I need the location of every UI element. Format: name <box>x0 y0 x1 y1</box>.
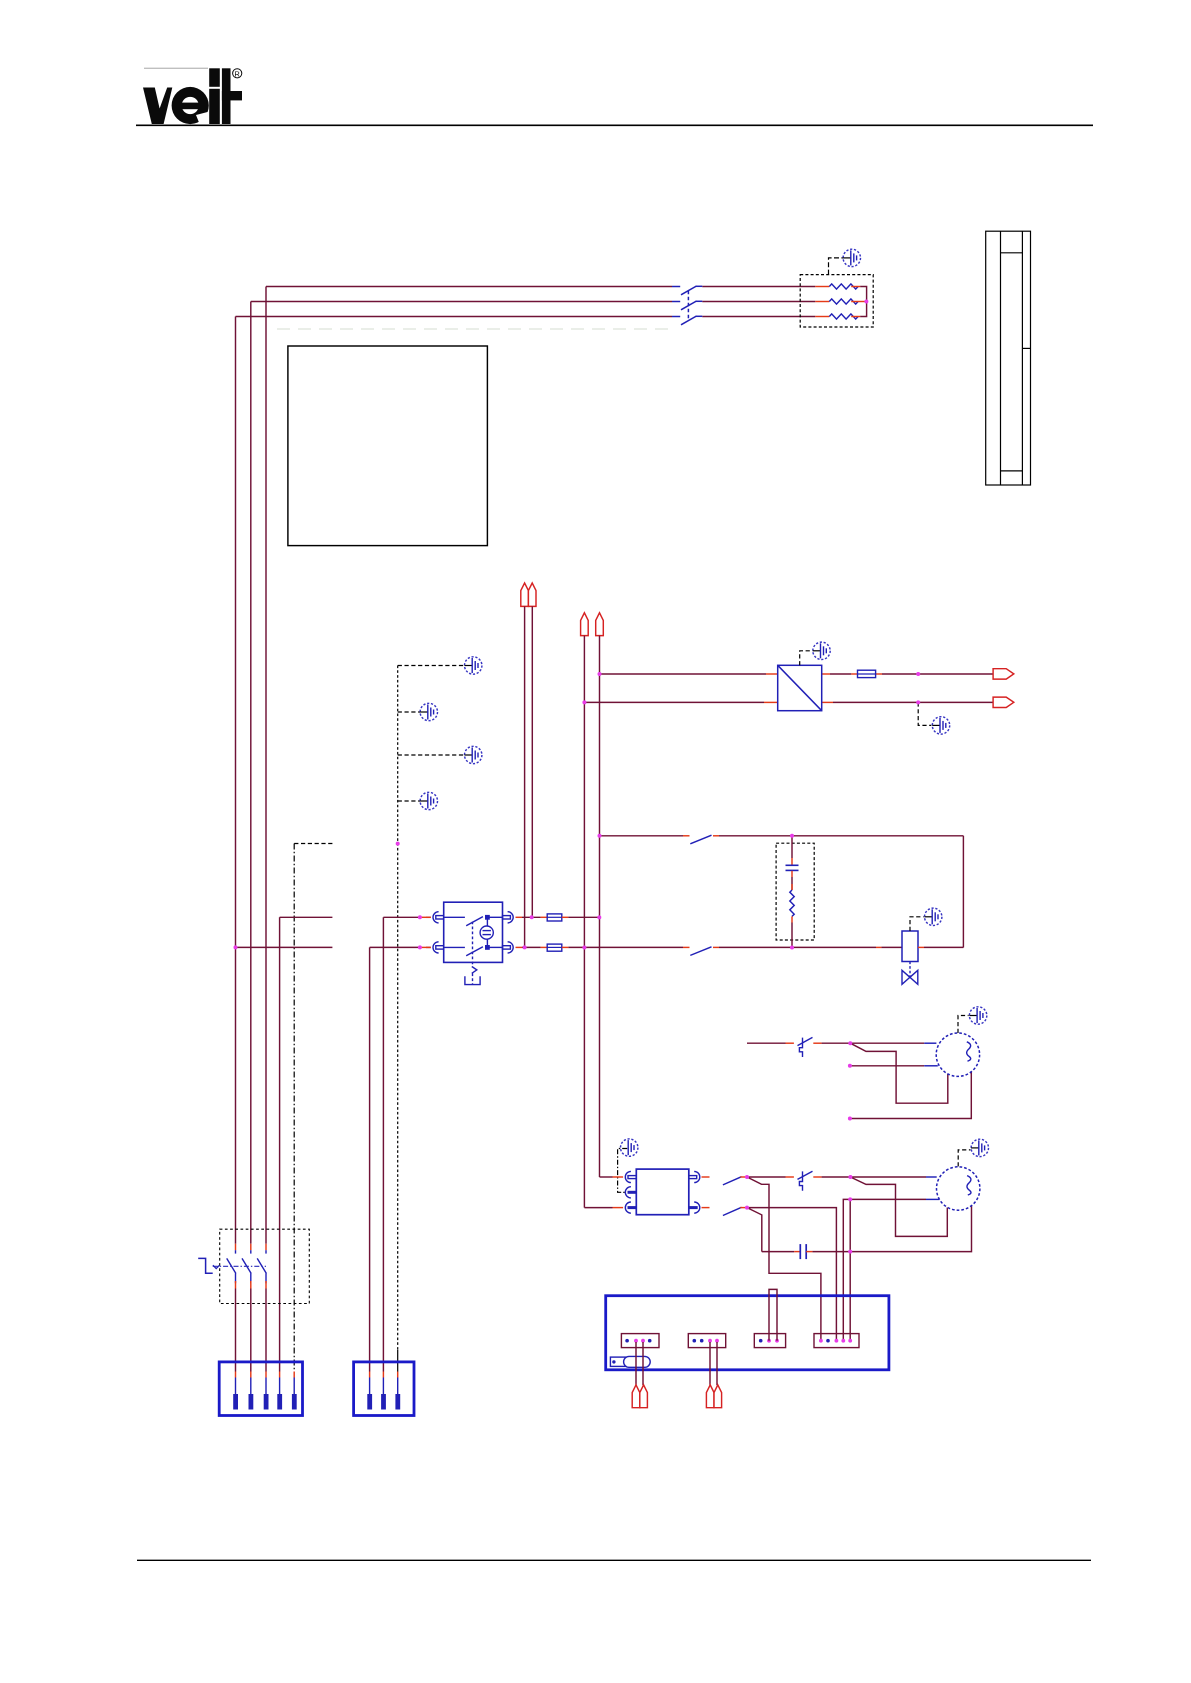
wire heater control top <box>600 836 964 948</box>
wire valve row left segment <box>236 917 333 1371</box>
wire relay row1 to board <box>747 1177 821 1341</box>
svg-text:R: R <box>234 69 240 78</box>
footer rule <box>137 1559 1091 1561</box>
breaker Q2 pole 3 <box>257 1244 266 1372</box>
connector X3 <box>688 1334 725 1348</box>
wire M2 feed row <box>747 1176 937 1178</box>
header rule <box>136 124 1093 126</box>
wire M1 return lead <box>850 1072 971 1119</box>
fuse F2 <box>547 944 568 951</box>
contact K4 row2 <box>702 1207 748 1215</box>
wire X2 to plug arrows <box>636 1342 643 1385</box>
connector X2 <box>621 1334 659 1348</box>
ground G8 at solenoid <box>910 908 942 931</box>
wire from arrow pair left <box>524 606 526 947</box>
node snubber junctions <box>582 834 794 950</box>
arrow plug pair 1 <box>632 1385 647 1408</box>
wire valve row right segment <box>370 917 431 1371</box>
ground G9 at motor M2 <box>958 1139 988 1166</box>
wire M1 aux lead <box>850 1065 938 1067</box>
thermal protector F5 <box>798 1171 813 1191</box>
ground G7 at transformer <box>800 642 831 665</box>
wire X4 bracket <box>769 1289 777 1340</box>
ground G1 <box>398 657 482 674</box>
transformer T1 box <box>778 665 822 710</box>
contact K1 heater <box>683 835 719 844</box>
snubber box dashed <box>776 843 814 940</box>
machine blank label box <box>288 346 488 546</box>
arrow single right <box>596 613 604 636</box>
wire M2 start branch <box>850 1177 947 1236</box>
resistor R1 <box>815 284 866 302</box>
terminal X7 pins <box>367 1372 400 1410</box>
connector X1 valve plug <box>420 902 513 984</box>
breaker Q2 dashed box <box>220 1229 310 1303</box>
veit logo <box>143 68 242 124</box>
terminal block X6 <box>219 1362 302 1416</box>
machine outline frame (press plate) <box>986 231 1031 485</box>
ground G5 at relay <box>618 1139 638 1192</box>
wire vertical bus B <box>599 636 601 1177</box>
wire relay row2 to board <box>747 1208 836 1341</box>
wire X3 to plug arrows <box>710 1342 717 1385</box>
resistor R2 <box>815 299 866 304</box>
control board A1 <box>606 1296 889 1370</box>
fuse F1 <box>547 914 599 921</box>
ground PE1 at heating box <box>829 249 861 274</box>
ground G6 at motor M1 <box>958 1007 987 1033</box>
faint spare dashed line <box>277 328 669 330</box>
resistor R3 <box>815 302 866 320</box>
breaker Q2 pole 1 <box>227 1244 236 1372</box>
node M2 junctions <box>745 1175 852 1254</box>
ground G2 <box>398 703 438 720</box>
contact K3 row1 <box>702 1177 748 1185</box>
contact K2 heater <box>683 947 719 956</box>
relay Z1 mains filter box <box>636 1169 689 1215</box>
node common of R1-R3 <box>864 300 868 304</box>
ground bus dotted vertical <box>397 666 399 1372</box>
PE dashed corner wire <box>294 844 332 1372</box>
thermal protector F4 <box>798 1037 813 1057</box>
wire L1 top feeder horizontal <box>236 287 816 317</box>
ground G4 <box>398 792 438 809</box>
node tap on L1 <box>234 945 238 949</box>
breaker Q2 trip linkage <box>198 1258 266 1273</box>
connector X5 <box>814 1334 859 1348</box>
heating element box E1 dashed enclosure <box>800 275 873 327</box>
terminal X6 pins <box>233 1372 296 1410</box>
arrow plug pair 2 <box>706 1385 721 1408</box>
wire M1 start branch <box>850 1043 948 1103</box>
connector X4 <box>754 1334 785 1348</box>
node fuse junctions <box>597 915 601 919</box>
ground G10 secondary <box>918 702 950 734</box>
arrow single left <box>581 613 589 636</box>
wire heater control bottom <box>568 946 963 948</box>
transformer T1 primary wire <box>584 674 993 702</box>
resistor R4 snubber <box>790 877 794 948</box>
wire M1 feed <box>747 1042 936 1044</box>
fuse holder on board <box>610 1356 650 1367</box>
arrow out secondary top <box>993 669 1014 679</box>
wire X1 to fuses <box>516 917 548 947</box>
relay Z1 right pins <box>689 1171 700 1213</box>
switch Q1 3-pole disconnect <box>672 286 702 325</box>
wire L1 left vertical drop <box>236 287 267 1244</box>
node PE junction on dotted bus <box>396 842 400 846</box>
terminal block X7 <box>354 1362 414 1416</box>
capacitor C2 motor start <box>762 1244 813 1259</box>
motor M2 <box>937 1167 980 1210</box>
capacitor C1 snubber <box>786 836 799 877</box>
relay Z1 left pins <box>625 1171 636 1213</box>
node M1 taps <box>848 1041 852 1120</box>
ground G3 <box>398 746 482 763</box>
wire M2 aux lead <box>843 1199 939 1340</box>
wire from arrow pair right <box>531 606 533 917</box>
wire vertical bus A <box>583 636 585 1208</box>
valve symbol under Y1 <box>902 962 918 985</box>
wire bus to relay pins <box>584 1177 623 1208</box>
node T1 junctions <box>582 672 920 704</box>
solenoid Y1 coil <box>876 931 924 962</box>
wire M2 run return <box>812 1199 971 1340</box>
arrow pair feed (steam supply) <box>521 583 536 606</box>
transformer T1 red leads <box>764 674 882 702</box>
arrow out secondary bottom <box>993 697 1014 707</box>
fuse F3 <box>858 670 876 677</box>
breaker Q2 pole 2 <box>242 1244 251 1372</box>
node X1 junctions <box>418 915 534 949</box>
motor M1 <box>936 1033 979 1076</box>
